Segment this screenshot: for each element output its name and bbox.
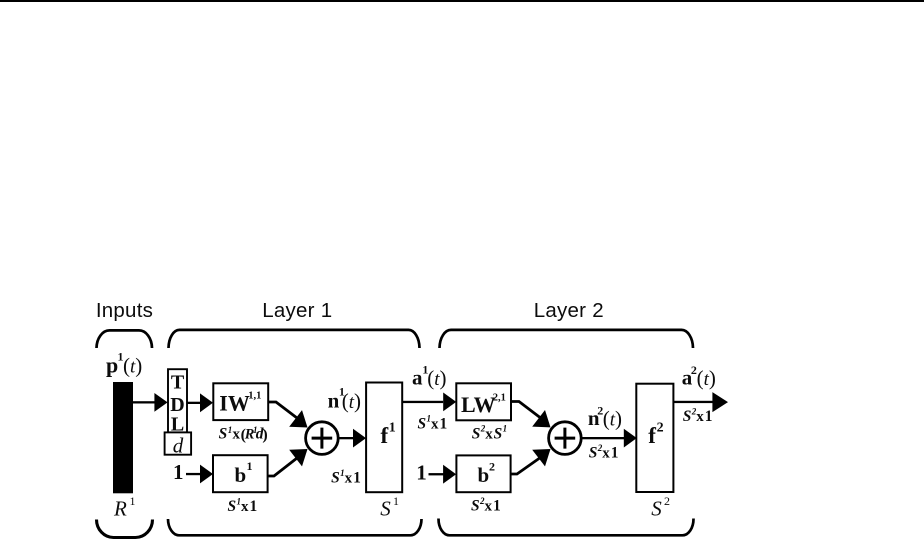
svg-text:Inputs: Inputs [96,299,153,322]
wire b1 to sum1 (diagonal) [268,457,299,477]
svg-text:S: S [219,426,228,443]
svg-text:1: 1 [705,408,713,425]
wire sum1 to f1 [338,437,354,439]
label S1x1 under sum1 wire [331,468,361,487]
wire bar to TDL [133,401,156,403]
label S2xS1 [472,424,507,443]
svg-text:1: 1 [440,415,448,432]
svg-text:S: S [380,496,391,520]
bracket layer2 bottom [438,519,693,536]
svg-text:1,1: 1,1 [248,390,261,401]
svg-text:S: S [589,445,598,462]
TDL box [168,369,187,432]
svg-text:T: T [171,372,185,394]
svg-text:2,1: 2,1 [493,392,506,403]
svg-text:S: S [331,470,340,487]
svg-text:(t): (t) [123,354,142,378]
arrowhead into f1 [353,429,366,448]
svg-text:2: 2 [664,494,670,508]
plus sign sum1 [312,428,333,449]
svg-text:): ) [262,427,267,444]
weight box LW21 [456,383,511,420]
arrowhead into IW [200,393,213,412]
top rule [0,0,924,2]
svg-text:S: S [494,425,503,442]
wire TDL to IW [187,402,201,404]
label a1(t) [412,362,446,390]
label S1 under f1 [380,494,399,520]
plus sign sum2 [555,428,576,449]
label R1 [113,494,136,521]
svg-text:x: x [696,409,704,425]
arrowhead into sum2 lower [532,449,550,466]
svg-text:Layer 2: Layer 2 [534,299,604,322]
svg-text:1: 1 [503,424,508,434]
svg-text:x: x [233,427,241,443]
bracket inputs top [97,330,153,348]
svg-text:(t): (t) [697,366,716,390]
svg-text:b: b [478,463,490,487]
arrowhead into LW [443,393,456,412]
label IW 1,1 [219,390,261,415]
svg-text:x: x [345,471,353,487]
svg-text:S: S [683,408,692,425]
label f2 [648,420,663,448]
wire sum2 to f2 [581,437,624,439]
svg-text:1: 1 [130,494,136,508]
svg-text:x: x [241,499,249,515]
svg-text:a: a [412,365,423,389]
label a2(t) [682,363,716,390]
label S2x1 under b2 [471,496,501,515]
label f1 [381,420,396,448]
label n1(t) [328,385,361,413]
transfer box f2 [636,384,673,492]
bracket layer1 bottom [168,519,422,535]
bracket layer1 top [169,330,420,348]
svg-text:1: 1 [416,461,427,485]
label b1 [235,459,253,487]
label LW 2,1 [461,392,506,417]
svg-text:x: x [602,446,610,462]
svg-text:1: 1 [493,498,501,515]
svg-text:1: 1 [173,460,184,484]
svg-text:S: S [418,415,427,432]
svg-text:LW: LW [461,392,496,417]
svg-text:x: x [485,426,493,442]
svg-text:1: 1 [611,445,619,462]
svg-text:1: 1 [353,470,361,487]
svg-text:b: b [235,463,247,487]
arrowhead into sum2 upper [532,410,550,427]
wire 1 to b2 [429,473,445,475]
arrowhead into TDL [154,393,167,412]
input vector bar [113,382,133,493]
arrowhead into sum1 lower [289,449,307,466]
output arrowhead [712,392,728,412]
output wire from f2 [673,401,713,403]
svg-text:S: S [228,498,237,515]
arrowhead into f2 [624,429,637,448]
sum junction 2 [549,422,582,455]
wire IW to sum1 (diagonal) [268,402,299,420]
bracket layer2 top [440,330,694,348]
wire LW to sum2 (diagonal) [511,402,542,420]
bias box b1 [213,455,268,492]
svg-text:d: d [173,434,184,458]
label S2 under f2 [651,494,670,520]
TDL letters [170,372,185,436]
wire f1 to LW [402,401,443,403]
label S1x1 under f1-LW wire [418,414,448,433]
svg-text:IW: IW [219,390,250,415]
wire b2 to sum2 (diagonal) [511,456,542,474]
svg-text:1: 1 [393,494,399,508]
svg-text:2: 2 [657,420,664,435]
svg-text:R: R [113,497,127,521]
arrowhead into b2 [443,465,456,484]
label b2 [478,460,496,488]
svg-text:S: S [651,496,662,520]
sum junction 1 [306,422,339,455]
label p1(t) [106,349,142,377]
svg-text:Layer 1: Layer 1 [262,299,332,322]
d box [165,432,192,454]
label n2(t) [588,403,622,430]
wire 1 to b1 [186,473,201,475]
svg-text:p: p [106,352,118,377]
svg-text:(t): (t) [427,366,446,390]
transfer box f1 [366,383,402,493]
svg-text:x: x [431,416,439,432]
svg-text:(t): (t) [342,389,361,413]
arrowhead into sum1 upper [289,410,307,427]
svg-text:f: f [648,423,656,448]
bracket inputs bottom [97,520,153,538]
svg-text:n: n [328,388,340,412]
svg-text:x: x [485,499,493,515]
label S2x1 under output [683,406,713,425]
label S1x(R1d) [219,425,268,444]
arrowhead into b1 [200,465,213,484]
svg-text:f: f [381,423,389,448]
svg-text:1: 1 [250,498,258,515]
svg-text:1: 1 [389,420,396,435]
svg-text:S: S [471,498,480,515]
svg-text:S: S [472,425,481,442]
svg-text:1: 1 [247,459,253,473]
bias box b2 [456,455,510,492]
label S2x1 under sum2 wire [589,443,619,462]
label S1x1 under b1 [228,496,258,515]
svg-text:2: 2 [489,460,495,474]
weight box IW11 [213,383,268,420]
svg-text:(t): (t) [603,407,622,431]
